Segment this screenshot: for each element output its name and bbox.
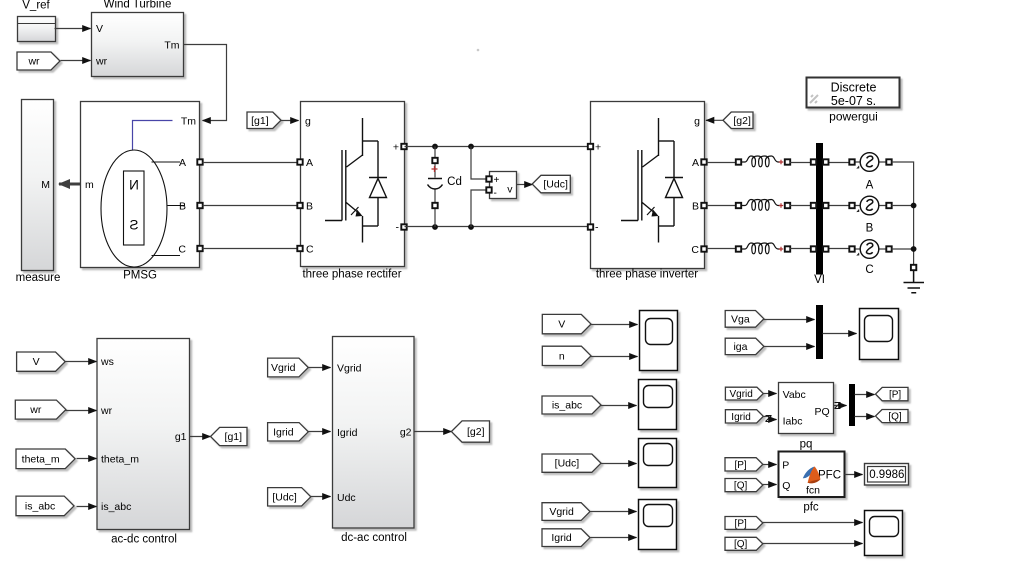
from tag [P] (scope)	[725, 517, 763, 530]
wire [P] to scope6	[763, 522, 863, 524]
from tag Vga	[725, 311, 764, 328]
PMSG output ports A B C	[178, 157, 202, 256]
wire demux to [P]	[855, 394, 875, 396]
rectifier ports	[297, 144, 406, 251]
wire VI to source A	[827, 162, 851, 164]
block Wind Turbine	[92, 13, 184, 77]
svg-text:V: V	[558, 319, 565, 331]
wire Vgrid to Vgrid	[309, 367, 331, 369]
wire [Q] to scope6	[763, 543, 863, 545]
goto tag [g1]	[211, 427, 248, 445]
svg-text:Cd: Cd	[447, 176, 462, 188]
svg-text:fcn: fcn	[806, 485, 820, 497]
from tag V (scope)	[542, 314, 591, 333]
svg-text:is_abc: is_abc	[552, 400, 582, 412]
svg-text:V: V	[33, 356, 40, 368]
wire is_abc to is_abc	[77, 506, 97, 508]
wire mux to scope5	[823, 333, 857, 335]
svg-text:B: B	[179, 201, 186, 213]
svg-text:-: -	[595, 222, 599, 234]
wire wr to Wind Turbine wr	[61, 60, 91, 62]
from tag Igrid (scope)	[542, 529, 590, 547]
wire [g2] to inverter g	[706, 119, 723, 121]
svg-text:Vga: Vga	[731, 313, 750, 325]
svg-text:PFC: PFC	[818, 470, 841, 482]
svg-text:V: V	[96, 23, 103, 35]
rectifier IGBT/diode icon	[325, 118, 387, 243]
wire Tm internal (blue)	[133, 121, 173, 151]
svg-text:A: A	[306, 157, 313, 169]
wire [g1] to rectifier g	[281, 120, 299, 122]
svg-text:three phase inverter: three phase inverter	[596, 269, 698, 281]
voltage measurement block	[486, 172, 516, 200]
svg-text:ac-dc control: ac-dc control	[111, 534, 177, 546]
svg-text:PMSG: PMSG	[123, 270, 157, 282]
svg-text:[g1]: [g1]	[251, 115, 269, 127]
svg-text:Discrete: Discrete	[831, 81, 877, 95]
svg-text:B: B	[866, 223, 874, 235]
from tag wr (top)	[17, 52, 60, 70]
AC source A	[849, 153, 891, 172]
wire PMSG A to rectifier A	[203, 162, 298, 164]
wire to voltmeter minus	[471, 190, 487, 227]
from tag Igrid (pq)	[725, 410, 763, 423]
block pq (power measurement)	[779, 383, 834, 434]
wire voltmeter to [Udc]	[517, 184, 533, 186]
svg-text:measure: measure	[16, 272, 61, 284]
AC source C	[849, 240, 891, 259]
svg-text:dc-ac control: dc-ac control	[341, 532, 407, 544]
scope P Q	[865, 511, 903, 556]
wire pfc to display	[845, 474, 863, 476]
svg-text:Iabc: Iabc	[783, 415, 803, 427]
block measure	[22, 100, 54, 271]
svg-text:wr: wr	[95, 56, 108, 68]
svg-text:Tm: Tm	[181, 116, 196, 128]
from tag [P] (pfc)	[725, 458, 763, 471]
MATLAB logo in pfc	[803, 466, 821, 483]
demux P Q	[849, 384, 855, 426]
svg-text:Vgrid: Vgrid	[271, 362, 296, 374]
PMSG magnet bar	[124, 171, 145, 245]
from tag [Q] (scope)	[725, 537, 763, 550]
svg-text:[Q]: [Q]	[888, 411, 902, 422]
svg-text:Udc: Udc	[337, 492, 356, 504]
from tag theta_m	[16, 449, 75, 469]
svg-text:powergui: powergui	[829, 110, 878, 124]
svg-text:g: g	[305, 116, 311, 128]
svg-text:B: B	[692, 201, 699, 213]
junction dots ground rail	[911, 203, 917, 252]
inverter ports	[588, 144, 707, 252]
svg-text:0.9986: 0.9986	[869, 469, 904, 481]
svg-text:g: g	[694, 116, 700, 128]
svg-text:[P]: [P]	[889, 390, 901, 401]
svg-text:pfc: pfc	[803, 502, 819, 514]
block powergui	[807, 78, 900, 108]
svg-text:Q: Q	[782, 480, 790, 492]
svg-text:Vgrid: Vgrid	[337, 363, 362, 375]
scope Vga iga	[860, 309, 899, 360]
from tag wr (ac-dc)	[15, 400, 66, 419]
VI measurement bus bar	[816, 143, 823, 275]
svg-text:C: C	[178, 244, 186, 256]
wire inverter A to inductor	[707, 162, 737, 164]
wire inverter B to inductor	[707, 205, 737, 207]
inductor LC	[736, 243, 790, 254]
wire PMSG C to rectifier C	[203, 248, 298, 250]
svg-text:pq: pq	[800, 439, 813, 451]
from tag [Q] (pfc)	[725, 479, 763, 492]
junction dots DC rails	[432, 144, 474, 230]
wire iga to mux	[764, 346, 815, 348]
VI side ports	[811, 159, 829, 251]
wire [Udc] to Udc	[311, 496, 331, 498]
svg-text:+: +	[595, 142, 601, 154]
inverter IGBT/diode icon	[621, 118, 683, 243]
svg-text:wr: wr	[27, 56, 40, 68]
wire Igrid to Iabc	[764, 417, 777, 420]
svg-text:[P]: [P]	[735, 518, 747, 529]
svg-text:VI: VI	[814, 274, 825, 286]
inductor LA	[736, 156, 790, 167]
svg-text:P: P	[782, 459, 789, 471]
svg-text:[Udc]: [Udc]	[555, 458, 580, 470]
svg-text:M: M	[41, 179, 50, 191]
rate transition marker (PQ out)	[835, 403, 841, 409]
svg-text:PQ: PQ	[815, 406, 830, 418]
svg-text:N: N	[129, 178, 139, 193]
block three phase rectifier	[301, 102, 405, 267]
svg-text:Igrid: Igrid	[273, 426, 294, 438]
wire [P] to P	[763, 464, 777, 466]
svg-text:g1: g1	[175, 431, 187, 443]
svg-text:C: C	[306, 244, 314, 256]
scope V n	[640, 311, 678, 371]
wire DC minus rail	[405, 226, 591, 228]
PMSG stator tap lines	[152, 162, 186, 256]
svg-text:is_abc: is_abc	[25, 501, 55, 513]
svg-text:5e-07 s.: 5e-07 s.	[831, 94, 876, 108]
from tag is_abc (scope)	[542, 396, 601, 414]
from tag Igrid (dc-ac)	[268, 423, 309, 441]
wire PMSG B to rectifier B	[203, 205, 298, 207]
mux Vga iga	[816, 305, 823, 359]
wire inverter C to inductor	[707, 248, 737, 250]
wire PQ to demux	[834, 405, 847, 407]
svg-text:n: n	[559, 350, 565, 362]
goto tag [P]	[876, 387, 909, 400]
svg-text:is_abc: is_abc	[101, 501, 131, 513]
capacitor Cd branch	[428, 147, 443, 228]
svg-text:three phase rectifer: three phase rectifer	[302, 269, 401, 281]
svg-text:ws: ws	[100, 356, 114, 368]
svg-text:[P]: [P]	[734, 460, 746, 471]
ground symbol	[904, 265, 925, 293]
wire inductor A to VI	[790, 162, 813, 164]
wire [Q] to Q	[763, 484, 777, 486]
block three phase inverter	[591, 102, 705, 269]
wire Vgrid to scope4	[591, 511, 637, 513]
AC source B	[849, 196, 891, 215]
PMSG rotor ellipse	[101, 150, 167, 267]
svg-text:[g1]: [g1]	[225, 431, 243, 443]
svg-text:Vgrid: Vgrid	[549, 506, 574, 518]
scope is_abc	[639, 380, 677, 430]
from tag is_abc (ac-dc)	[16, 496, 74, 516]
display 0.9986	[865, 464, 909, 486]
svg-text:Igrid: Igrid	[731, 412, 750, 423]
svg-text:A: A	[179, 157, 186, 169]
wire VI to source C	[827, 248, 851, 250]
wire wr to wr	[66, 410, 97, 412]
wire is_abc to scope2	[601, 405, 637, 407]
wire Igrid to scope4	[591, 537, 637, 539]
wire Tm feedback	[184, 45, 227, 121]
from tag [g2]	[723, 112, 753, 129]
svg-text:wr: wr	[29, 404, 42, 416]
constant block V_ref	[18, 17, 56, 42]
svg-text:+: +	[494, 175, 500, 186]
wire g1 to [g1]	[190, 436, 211, 438]
svg-text:S: S	[129, 218, 138, 233]
wire sources to ground rail	[892, 162, 914, 266]
svg-text:[Udc]: [Udc]	[543, 179, 568, 191]
svg-text:iga: iga	[733, 341, 747, 353]
block ac-dc control	[97, 339, 190, 530]
svg-text:[Q]: [Q]	[734, 481, 748, 492]
scope Udc	[639, 439, 677, 488]
from tag Vgrid (dc-ac)	[268, 358, 309, 377]
inductor LB	[736, 200, 790, 211]
svg-text:V_ref: V_ref	[22, 0, 50, 12]
block PMSG	[81, 102, 200, 268]
wire theta_m to theta_m	[77, 458, 97, 460]
wire V to ws	[66, 361, 97, 363]
wire Vgrid to Vabc	[764, 393, 777, 395]
svg-text:Vgrid: Vgrid	[729, 389, 752, 400]
svg-text:[Udc]: [Udc]	[272, 491, 297, 503]
wire VI to source B	[827, 205, 851, 207]
svg-text:[g2]: [g2]	[467, 426, 485, 438]
from tag [Udc] (scope)	[542, 454, 601, 472]
svg-text:Vabc: Vabc	[783, 389, 806, 401]
svg-text:-: -	[396, 222, 400, 234]
svg-text:C: C	[691, 244, 699, 256]
wire V_ref to Wind Turbine V	[55, 28, 91, 30]
svg-text:Tm: Tm	[164, 40, 179, 52]
block pfc (MATLAB function)	[779, 452, 845, 498]
annotation dot	[477, 49, 480, 52]
svg-text:[g2]: [g2]	[733, 115, 751, 127]
svg-text:wr: wr	[100, 405, 113, 417]
goto tag [Q]	[876, 410, 909, 423]
from tag Vgrid (pq)	[725, 387, 763, 400]
wire DC plus rail	[405, 146, 591, 148]
wire m (thick) PMSG to measure	[59, 183, 81, 186]
rate transition marker (Igrid)	[766, 416, 772, 422]
svg-text:Igrid: Igrid	[337, 427, 358, 439]
wire inductor B to VI	[790, 205, 813, 207]
wire to voltmeter plus	[471, 147, 487, 180]
from tag n	[542, 346, 591, 365]
svg-text:g2: g2	[400, 426, 412, 438]
goto tag [Udc]	[532, 175, 570, 193]
scope Vgrid Igrid	[639, 500, 677, 550]
svg-text:Wind Turbine: Wind Turbine	[104, 0, 172, 11]
wire demux to [Q]	[855, 416, 875, 418]
svg-text:theta_m: theta_m	[22, 453, 60, 465]
wire n to scope1	[591, 356, 638, 358]
svg-text:v: v	[507, 184, 513, 196]
svg-text:m: m	[85, 179, 94, 191]
wire g2 to [g2]	[415, 431, 452, 433]
wire Vga to mux	[764, 319, 815, 321]
wire V to scope1	[591, 324, 638, 326]
svg-text:[Q]: [Q]	[734, 539, 748, 550]
svg-text:A: A	[692, 157, 699, 169]
wire inductor C to VI	[790, 248, 813, 250]
svg-text:+: +	[393, 142, 399, 154]
wire [Udc] to scope3	[601, 463, 637, 465]
svg-text:C: C	[865, 264, 873, 276]
svg-text:theta_m: theta_m	[101, 453, 139, 465]
from tag Vgrid (scope)	[542, 503, 590, 521]
svg-text:-: -	[494, 188, 497, 199]
from tag [Udc] (dc-ac)	[268, 488, 311, 506]
svg-text:A: A	[866, 180, 874, 192]
block dc-ac control	[333, 337, 415, 529]
from tag V (ac-dc)	[17, 352, 66, 371]
svg-text:B: B	[306, 201, 313, 213]
wire Igrid to Igrid	[309, 431, 331, 433]
svg-text:Igrid: Igrid	[551, 532, 572, 544]
from tag [g1]	[247, 112, 281, 129]
goto tag [g2]	[451, 421, 489, 442]
from tag iga	[725, 338, 764, 354]
